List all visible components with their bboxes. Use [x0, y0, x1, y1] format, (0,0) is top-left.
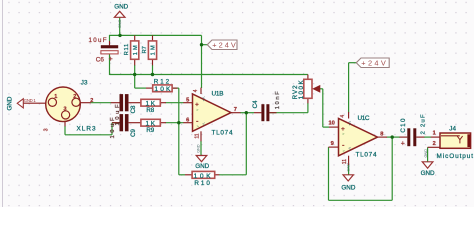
svg-text:J4: J4 [449, 126, 456, 133]
svg-text:10uF: 10uF [110, 117, 116, 138]
svg-text:2: 2 [73, 94, 76, 100]
svg-text:1M: 1M [151, 45, 157, 55]
svg-text:2: 2 [433, 141, 436, 147]
svg-text:U1B: U1B [212, 90, 224, 97]
svg-text:R9: R9 [146, 127, 154, 134]
svg-text:+: + [109, 56, 113, 63]
svg-text:R8: R8 [146, 107, 154, 114]
svg-text:2: 2 [90, 98, 93, 104]
svg-text:4: 4 [340, 115, 346, 118]
svg-text:GND: GND [196, 144, 200, 153]
svg-text:GND 1: GND 1 [24, 98, 37, 103]
svg-text:1: 1 [433, 130, 436, 136]
svg-text:GND: GND [424, 149, 428, 158]
svg-text:C4: C4 [252, 100, 259, 108]
svg-text:C6: C6 [96, 57, 105, 64]
svg-text:10uF: 10uF [115, 104, 121, 125]
svg-text:C10: C10 [400, 118, 407, 133]
svg-text:4: 4 [193, 89, 199, 92]
svg-text:7: 7 [234, 107, 237, 113]
svg-text:+24V: +24V [361, 59, 386, 68]
svg-text:V-: V- [348, 147, 353, 151]
svg-text:R12: R12 [154, 78, 170, 85]
svg-text:+: + [401, 141, 405, 148]
svg-text:10: 10 [328, 121, 334, 127]
svg-text:+24V: +24V [212, 41, 236, 50]
svg-text:XLR3: XLR3 [77, 125, 96, 132]
svg-text:100K: 100K [298, 80, 305, 100]
svg-text:GND: GND [347, 163, 351, 172]
svg-text:GND: GND [114, 4, 128, 11]
svg-text:R10: R10 [194, 180, 210, 187]
svg-text:GND: GND [195, 163, 209, 170]
svg-text:9: 9 [331, 141, 334, 147]
svg-text:10nF: 10nF [275, 91, 281, 109]
svg-text:3: 3 [44, 128, 50, 131]
svg-text:GND: GND [341, 184, 355, 191]
svg-text:1: 1 [54, 94, 57, 100]
svg-text:V+: V+ [202, 97, 207, 103]
svg-text:TL074: TL074 [356, 151, 377, 158]
svg-text:MicOutput: MicOutput [437, 153, 474, 160]
svg-text:10K: 10K [154, 86, 171, 93]
svg-text:GND: GND [7, 96, 14, 110]
svg-text:GND: GND [117, 20, 121, 29]
svg-text:C8: C8 [130, 105, 137, 113]
svg-text:R11: R11 [124, 44, 130, 56]
svg-text:2 2uF: 2 2uF [420, 114, 426, 134]
svg-text:V-: V- [202, 123, 207, 127]
svg-text:3: 3 [64, 107, 67, 113]
svg-text:C9: C9 [130, 128, 137, 136]
svg-text:6: 6 [186, 118, 189, 124]
svg-text:GND: GND [421, 170, 435, 177]
svg-text:R7: R7 [142, 46, 148, 53]
svg-text:10K: 10K [194, 173, 212, 180]
svg-text:8: 8 [380, 132, 383, 138]
svg-text:10uF: 10uF [89, 37, 107, 44]
svg-text:11: 11 [195, 133, 201, 138]
svg-text:V+: V+ [348, 121, 353, 127]
svg-text:1M: 1M [133, 45, 139, 55]
svg-text:5: 5 [186, 98, 189, 104]
svg-text:TL074: TL074 [212, 130, 233, 137]
svg-text:J3: J3 [81, 80, 88, 87]
svg-text:U1C: U1C [358, 115, 370, 122]
